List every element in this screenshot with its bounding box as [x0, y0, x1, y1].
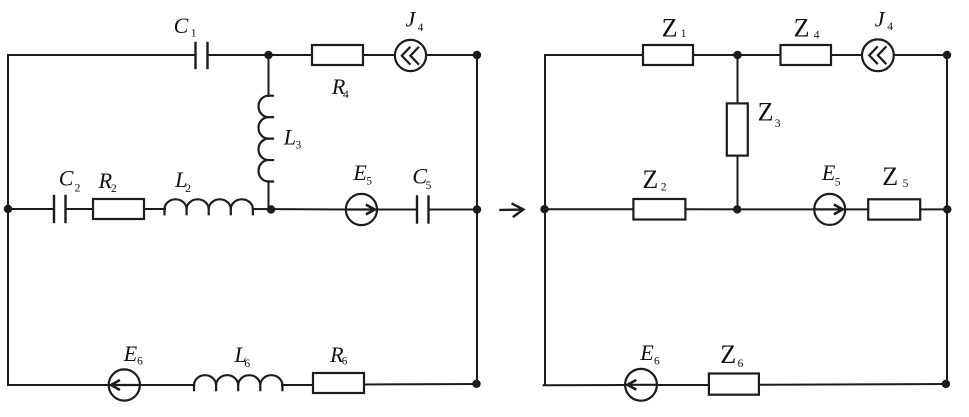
- node: top junction of Z3 branch: [733, 51, 741, 59]
- label Z5: [882, 162, 908, 191]
- svg-text:3: 3: [775, 118, 781, 130]
- label L3: [283, 124, 302, 151]
- wire: Z4 to J4: [831, 54, 862, 56]
- svg-text:E: E: [639, 340, 654, 365]
- label C1: [174, 13, 197, 40]
- wire: R2 to L2: [144, 208, 165, 210]
- wire: Z5 to right edge: [920, 208, 947, 210]
- voltage source E6 (left circuit): [109, 369, 140, 400]
- svg-text:2: 2: [661, 182, 667, 194]
- svg-text:C: C: [174, 13, 189, 38]
- label Z4: [794, 14, 820, 43]
- wire: C1 to R4: [208, 54, 313, 56]
- impedance Z5: [868, 199, 920, 219]
- node: top junction of L3 branch: [264, 51, 272, 59]
- label C5: [412, 164, 431, 193]
- svg-text:L: L: [283, 124, 296, 149]
- node: top-right corner (right circuit): [943, 51, 951, 59]
- wire: Z2 to E5: [685, 208, 815, 210]
- svg-text:6: 6: [342, 356, 348, 368]
- capacitor C5: [417, 197, 429, 223]
- svg-text:4: 4: [814, 29, 820, 41]
- label L2: [174, 167, 191, 195]
- impedance Z6: [709, 374, 759, 395]
- wire: left vertical (left circuit): [7, 55, 9, 385]
- svg-text:2: 2: [111, 183, 117, 195]
- inductor L2: [165, 199, 253, 214]
- current source J4 (right circuit): [862, 39, 894, 71]
- wire: Z3 branch upper stub: [737, 55, 739, 103]
- svg-text:1: 1: [681, 28, 687, 40]
- capacitor C1: [196, 43, 208, 68]
- wire: L6 to R6: [282, 384, 313, 386]
- svg-text:6: 6: [137, 356, 143, 368]
- wire: E5 to Z5: [845, 208, 868, 210]
- capacitor C2: [54, 196, 66, 222]
- svg-text:2: 2: [75, 182, 81, 194]
- svg-text:5: 5: [366, 176, 372, 188]
- wire: R4 to J4: [363, 54, 395, 56]
- voltage source E5 (left circuit): [346, 194, 377, 225]
- svg-text:6: 6: [244, 358, 250, 370]
- label R4: [331, 74, 349, 101]
- wire: bottom row to E6: [8, 384, 109, 386]
- svg-text:E: E: [123, 341, 138, 366]
- svg-text:1: 1: [191, 28, 197, 40]
- resistor R4: [312, 45, 363, 65]
- svg-text:Z: Z: [794, 14, 810, 43]
- svg-text:E: E: [821, 160, 836, 185]
- svg-text:5: 5: [835, 177, 841, 189]
- wire: Z6 to bottom-right corner: [759, 383, 946, 386]
- wire: L2 to E5: [253, 208, 346, 211]
- arrow: transform symbol between circuits: [501, 204, 524, 216]
- label J4 (left): [406, 7, 424, 34]
- inductor L3: [258, 96, 273, 182]
- node: middle-left (right circuit): [540, 205, 548, 213]
- wire: L3 branch lower stub: [268, 182, 270, 210]
- label E6 (left): [123, 341, 143, 368]
- svg-text:2: 2: [185, 183, 191, 195]
- node: middle junction of Z3 branch: [733, 205, 741, 213]
- svg-text:J: J: [875, 7, 886, 32]
- wire: C5 to right edge: [429, 209, 478, 211]
- wire: bottom row to E6 (right circuit): [544, 384, 626, 386]
- label E5 (right): [821, 160, 841, 188]
- wire: left circuit top, left segment: [8, 54, 195, 56]
- label R2: [98, 168, 117, 195]
- resistor R6: [313, 373, 364, 393]
- impedance Z2: [633, 199, 685, 220]
- svg-text:Z: Z: [662, 13, 678, 42]
- node: middle-left (left circuit): [4, 205, 12, 213]
- wire: L3 branch upper stub: [268, 55, 270, 96]
- wire: Z3 branch lower stub: [737, 156, 739, 210]
- wire: C2 to R2: [66, 208, 94, 210]
- svg-text:Z: Z: [720, 340, 736, 369]
- wire: right circuit top, left segment: [546, 54, 644, 56]
- svg-text:Z: Z: [758, 98, 774, 127]
- svg-text:5: 5: [903, 178, 909, 190]
- impedance Z3: [727, 103, 748, 155]
- node: middle junction of L3 branch: [267, 205, 275, 213]
- wire: E6 to L6: [140, 384, 194, 386]
- label E5 (left): [352, 160, 372, 187]
- wire: E5 to C5: [377, 209, 417, 211]
- label Z6: [720, 340, 743, 370]
- svg-text:6: 6: [738, 358, 744, 370]
- svg-text:Z: Z: [642, 165, 658, 194]
- label L6: [234, 342, 251, 370]
- node: middle-right (left circuit): [473, 205, 481, 213]
- wire: E6 to Z6: [657, 384, 709, 386]
- wire: right vertical (left circuit): [476, 55, 478, 384]
- voltage source E5 (right circuit): [814, 194, 845, 225]
- label R6: [329, 342, 348, 368]
- wire: Z1 to Z4: [693, 54, 781, 56]
- svg-text:4: 4: [418, 22, 424, 34]
- voltage source E6 (right circuit): [625, 369, 657, 401]
- wire: right vertical (right circuit): [946, 55, 948, 384]
- impedance Z1: [643, 45, 693, 65]
- wire: J4 to top-right corner: [894, 54, 947, 56]
- svg-text:E: E: [352, 160, 367, 185]
- wire: R6 to bottom-right corner: [364, 383, 477, 386]
- svg-text:C: C: [59, 166, 74, 191]
- wire: J4 to top-right corner: [426, 54, 477, 56]
- label C2: [59, 166, 81, 195]
- label Z2: [642, 165, 666, 194]
- svg-text:6: 6: [654, 356, 660, 368]
- label J4 (right): [875, 7, 894, 34]
- impedance Z4: [781, 45, 832, 65]
- svg-text:4: 4: [887, 21, 893, 33]
- svg-text:4: 4: [343, 89, 349, 101]
- label Z1: [662, 13, 687, 42]
- wire: middle row to Z2: [545, 208, 634, 210]
- inductor L6: [194, 375, 282, 390]
- current source J4 (left circuit): [395, 40, 426, 71]
- label E6 (right): [639, 340, 660, 367]
- node: bottom-right (right circuit): [942, 380, 950, 388]
- svg-text:J: J: [406, 7, 417, 32]
- svg-text:3: 3: [296, 139, 302, 151]
- svg-text:Z: Z: [882, 162, 898, 191]
- wire: left vertical (right circuit): [544, 55, 546, 385]
- svg-text:5: 5: [426, 180, 432, 192]
- node: bottom-right (left circuit): [472, 380, 480, 388]
- node: middle-right (right circuit): [943, 205, 951, 213]
- node: top-right corner (left circuit): [473, 51, 481, 59]
- resistor R2: [93, 199, 144, 219]
- label Z3: [758, 98, 781, 130]
- wire: middle row to C2: [8, 208, 54, 210]
